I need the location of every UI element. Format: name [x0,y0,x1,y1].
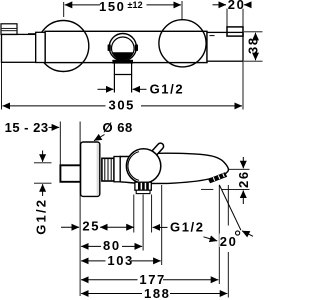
mixer body bar main section [45,31,207,62]
aerator at spout tip [208,172,227,183]
dim 38 (right side) [244,31,263,33]
spout base extension line [161,185,163,265]
handle knob circle [126,149,160,183]
handle lever tab [150,142,165,157]
mixer body bar left section (top view) [2,34,36,62]
svg-text:G1/2: G1/2 [170,219,205,234]
left escutcheon circle (top view) [38,21,89,72]
svg-text:20: 20 [228,0,246,12]
escutcheon (side view) [81,142,100,196]
body cap [114,157,120,182]
svg-text:38: 38 [246,36,261,54]
20° angle line [219,185,241,230]
right escutcheon circle (top view) [159,20,206,67]
hose outlet pipe (top view) [113,63,115,93]
extension lines below outlet [133,195,135,233]
dim row 80 [81,245,101,247]
svg-text:150: 150 [99,0,126,14]
left end cap box [1,24,17,35]
centre outlet ring outer [109,34,136,61]
ring side tick right [135,45,138,51]
svg-text:26: 26 [236,170,251,188]
dim 150 ±1 [63,2,65,17]
svg-text:±12: ±12 [128,0,143,10]
svg-text:15 - 23: 15 - 23 [5,120,49,135]
G1/2 callout (top view) [98,88,114,90]
black chord in ring [112,52,133,60]
dim 26 (right of spout) [229,168,250,170]
small tick above bar [28,33,36,35]
tick near right joint [210,35,215,37]
dim row 25 [61,226,79,228]
svg-text:20: 20 [220,234,238,249]
dim 305 [1,62,3,109]
centre outlet ring inner [112,37,135,60]
vertical reference line (angle/177) [218,185,220,284]
body and spout outline [120,153,228,183]
spout tip extension line (188) [227,185,229,226]
dim row 103 [81,260,105,262]
collar ring on body [36,32,45,62]
svg-text:188: 188 [144,286,171,300]
dim row 188 [81,293,142,295]
wall supply pipe (side view) [60,165,80,182]
svg-text:Ø 68: Ø 68 [103,120,133,135]
svg-text:G1/2: G1/2 [34,198,49,235]
svg-text:305: 305 [109,97,136,112]
20° arrows and text [242,231,253,237]
svg-text:177: 177 [139,272,166,287]
svg-text:80: 80 [103,238,121,253]
svg-text:103: 103 [107,253,133,268]
svg-text:25: 25 [82,218,100,233]
union nut [102,158,114,181]
mixer body bar right section [207,32,243,61]
dim row 177 [81,279,137,281]
right end box [227,27,243,36]
G1/2 vertical dim (left) [34,162,52,164]
ring side tick left [108,45,111,51]
svg-text:G1/2: G1/2 [150,82,185,97]
dark band under ring [112,60,133,64]
dim 20 (top right) [226,9,228,27]
G1/2 callout (outlet) [153,226,168,228]
shower hose outlet below handle [135,182,151,190]
wall face extension line [79,122,81,297]
